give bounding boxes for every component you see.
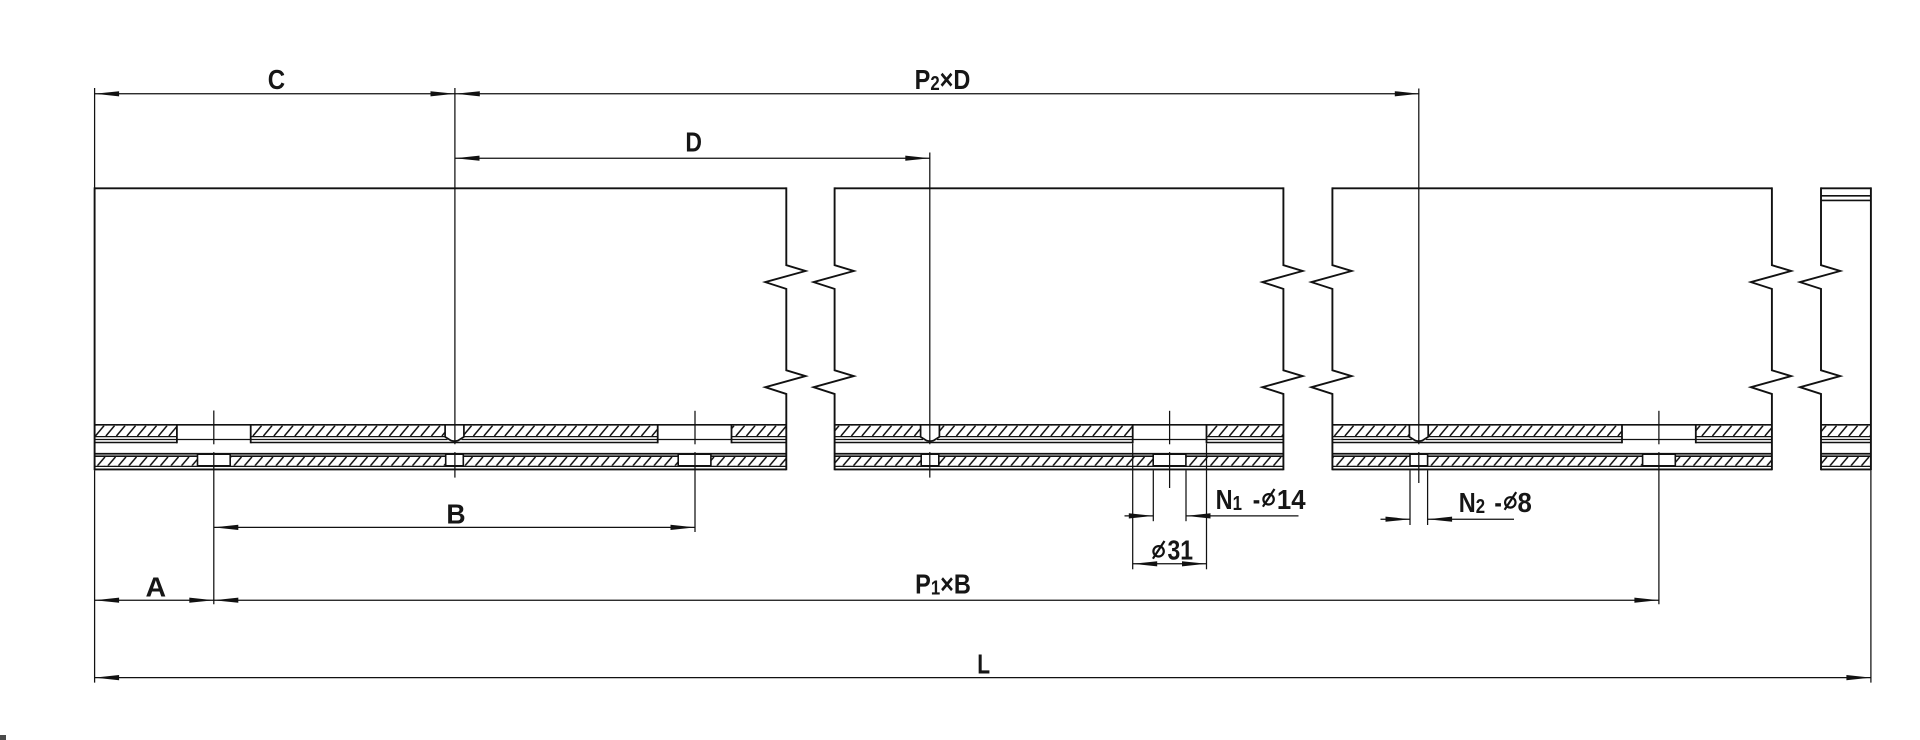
- svg-text:D: D: [685, 127, 702, 158]
- svg-text:14: 14: [1277, 484, 1306, 515]
- dimension line L: [95, 677, 1871, 679]
- svg-text:L: L: [977, 650, 990, 681]
- center line hole x=694.6 / B extension: [694, 411, 696, 445]
- dimension line A: [95, 599, 214, 601]
- dimension line C: [95, 93, 455, 95]
- countersink hole cup at x=454: [445, 425, 464, 441]
- rail segment 2 top edge line: [835, 187, 1284, 189]
- L right extension line x=1870.9: [1870, 470, 1872, 682]
- rail segment 3 top edge line: [1332, 187, 1772, 189]
- rail segment 1 top edge line: [95, 187, 787, 189]
- dimension line P2xD: [455, 93, 1419, 95]
- rail segment 1 lower section band: [95, 454, 787, 470]
- svg-text:31: 31: [1168, 536, 1194, 567]
- extension line left edge (C,A,L datum) x=94.6: [94, 88, 96, 188]
- countersink hole cup at x=1419: [1409, 425, 1428, 441]
- dimension line N2-phi8 (outside arrows): [1381, 518, 1411, 520]
- dimension line phi31: [1133, 563, 1207, 565]
- scan speck bottom-left corner: [0, 735, 6, 740]
- rail right end edge: [1870, 187, 1872, 470]
- phi14 extension lines: [1152, 470, 1154, 521]
- center line hole x=213.8 / A,B,P1xB extension: [213, 411, 215, 445]
- svg-text:-: -: [1253, 485, 1260, 516]
- center line hole x=1658.9 / P1xB extension: [1658, 411, 1660, 445]
- dimension line B: [214, 526, 695, 528]
- center line hole x=1418.8 / P2xD extension: [1418, 89, 1420, 445]
- svg-text:B: B: [446, 498, 465, 530]
- rail segment 3 upper section band: [1332, 425, 1772, 443]
- rail segment 4 top edge line: [1821, 187, 1871, 189]
- svg-text:P1×B: P1×B: [915, 570, 971, 600]
- rail segment 3 lower section band: [1332, 454, 1772, 470]
- dimension line D: [455, 157, 930, 159]
- center line hole x=930 / D extension: [929, 153, 931, 445]
- svg-text:C: C: [268, 63, 286, 95]
- rail segment 4 upper section band: [1821, 425, 1871, 443]
- svg-text:P2×D: P2×D: [915, 65, 971, 95]
- center line hole x=454.5 / C,P2xD,D extension: [454, 88, 456, 444]
- rail left end edge: [94, 187, 96, 470]
- svg-text:8: 8: [1518, 487, 1532, 518]
- counterbore hole (phi31) wall lines at x=695: [657, 424, 659, 443]
- rail segment 4 lower section band: [1821, 454, 1871, 470]
- countersink hole cup at x=930: [921, 425, 940, 441]
- svg-text:-: -: [1494, 488, 1501, 519]
- rail segment 2 lower section band: [835, 454, 1284, 470]
- svg-text:A: A: [145, 571, 166, 603]
- break line left edge of segment 4: [1800, 187, 1840, 470]
- break line left edge of segment 3: [1311, 187, 1351, 470]
- rail segment 2 upper section band: [835, 425, 1284, 443]
- counterbore hole (phi31) wall lines at x=214: [176, 424, 178, 443]
- phi31 extension lines: [1132, 444, 1134, 570]
- phi8 extension lines: [1409, 470, 1411, 525]
- counterbore hole (phi31) wall lines at x=1170: [1132, 424, 1134, 443]
- break line right edge of segment 2: [1262, 187, 1302, 470]
- break line right edge of segment 3: [1751, 187, 1791, 470]
- center line hole x=1169.6: [1169, 411, 1171, 445]
- right end piece top cap double lines: [1821, 195, 1871, 197]
- dimension line N1-phi14 (outside arrows): [1125, 515, 1154, 517]
- dimension line P1xB: [214, 599, 1659, 601]
- rail segment 1 upper section band: [95, 425, 787, 443]
- label phi31: [1153, 541, 1165, 559]
- counterbore hole (phi31) wall lines at x=1659: [1621, 424, 1623, 443]
- break line right edge of segment 1: [765, 187, 805, 470]
- break line left edge of segment 2: [814, 187, 854, 470]
